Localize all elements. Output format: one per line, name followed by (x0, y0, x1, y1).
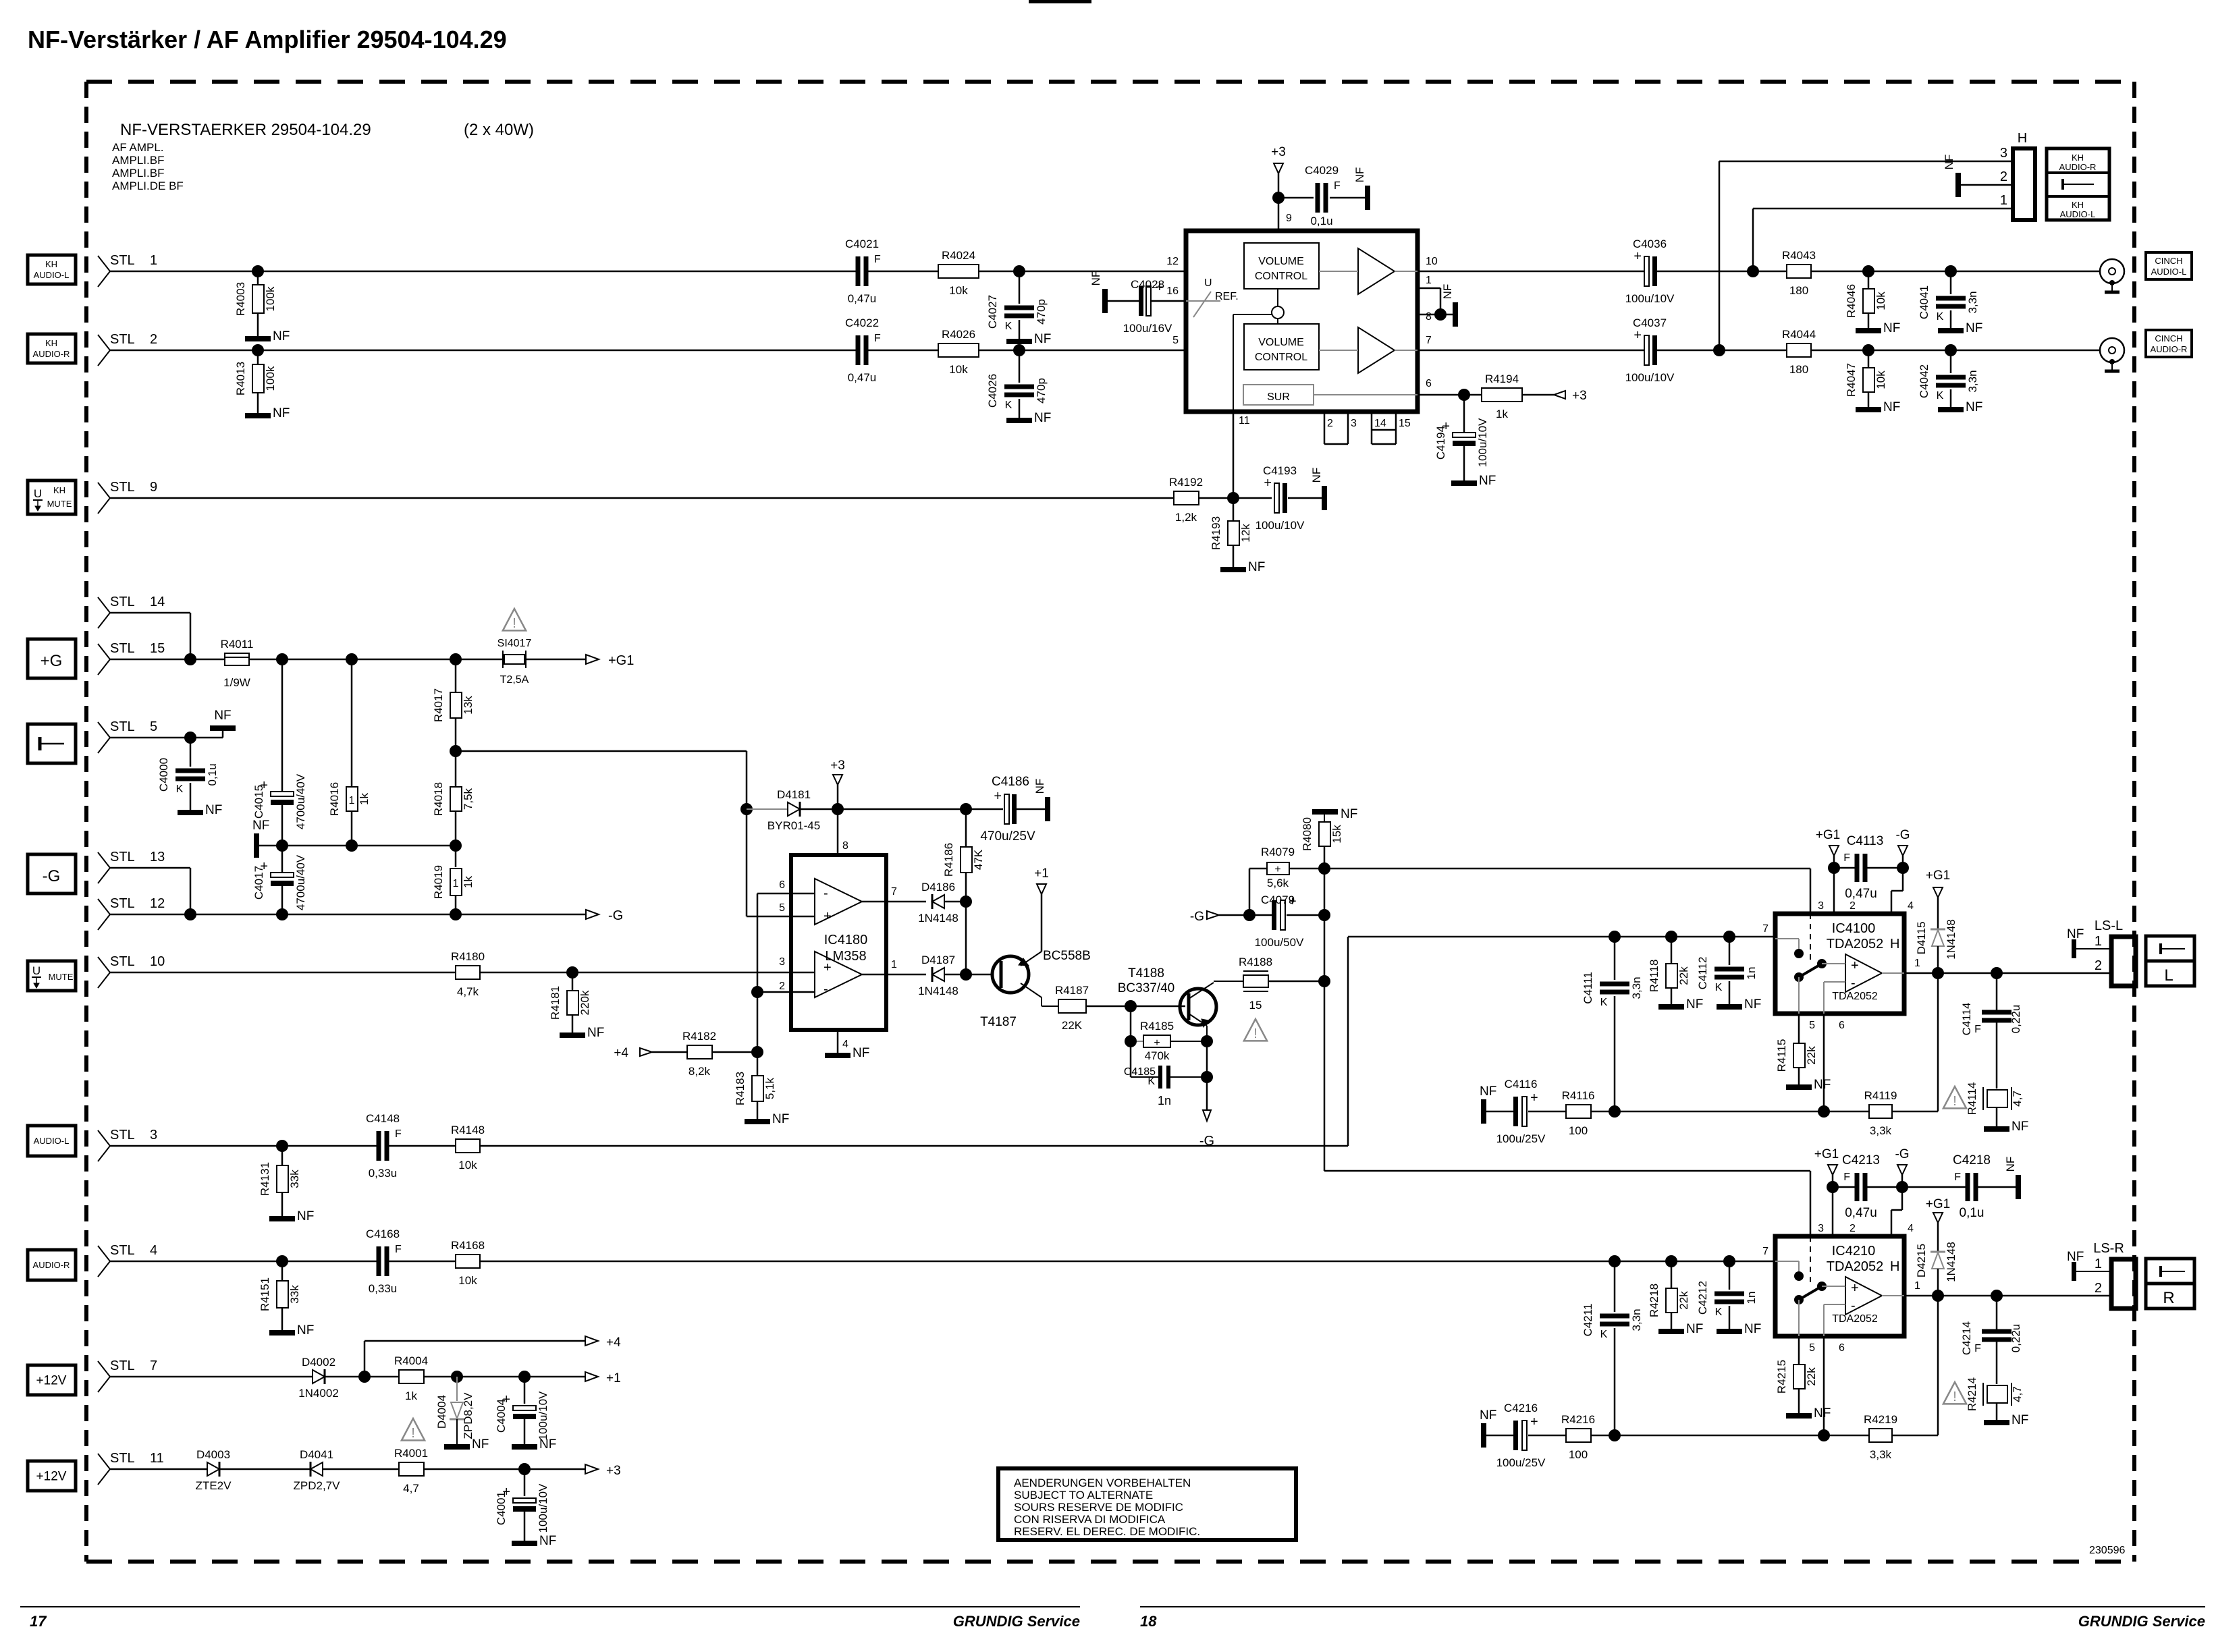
warning triangle R4214 (1943, 1382, 1966, 1404)
capacitor C4079 (1249, 893, 1324, 949)
svg-text:+: + (1633, 328, 1642, 343)
capacitor C4114 (1960, 973, 2022, 1089)
pin label IC4210-4 (1908, 1223, 1914, 1234)
svg-text:C4079: C4079 (1261, 893, 1295, 906)
ground NF C4112 (1717, 997, 1761, 1012)
pin label 6 (vc) (1426, 378, 1432, 389)
node output C4114 (1991, 967, 2003, 979)
wire C4028-pin16 (1151, 300, 1186, 302)
svg-text:C4029: C4029 (1305, 164, 1339, 177)
cinch jack AUDIO-L (2100, 259, 2124, 292)
pin label IC4100-7 (1762, 923, 1769, 935)
capacitor C4000 (157, 738, 219, 810)
svg-text:C4148: C4148 (366, 1112, 400, 1125)
pin label IC4100-3 (1818, 900, 1824, 912)
capacitor C4015 (252, 659, 307, 846)
svg-text:+G: +G (40, 652, 63, 670)
svg-text:F: F (874, 254, 881, 265)
wire STL11 row (110, 1468, 586, 1470)
node -G R4019 (450, 908, 462, 920)
resistor R4016 (328, 659, 371, 846)
node STL13-12 (184, 908, 196, 920)
svg-text:17: 17 (30, 1613, 47, 1630)
pin label 1 (vc) (1426, 275, 1432, 286)
node output C4214 (1991, 1290, 2003, 1302)
fuse SI4017 (497, 638, 532, 686)
svg-text:-: - (1851, 1298, 1856, 1313)
amp triangle 1 (1358, 248, 1395, 294)
top page marker bar (1029, 0, 1091, 3)
svg-text:1k: 1k (405, 1389, 417, 1402)
pin label 5 (1172, 335, 1179, 346)
svg-text:ZPD2,7V: ZPD2,7V (294, 1479, 341, 1492)
pin STL 2 (98, 332, 157, 366)
wire bias to IC4210 pin3 (1324, 1171, 1810, 1236)
svg-text:NF: NF (205, 803, 222, 817)
svg-text:D4003: D4003 (196, 1448, 230, 1461)
svg-text:R4192: R4192 (1169, 476, 1203, 489)
node STL4 R4151 (276, 1255, 288, 1267)
svg-text:R4080: R4080 (1301, 817, 1314, 851)
wire pin6 column (1823, 1014, 1825, 1111)
connector tag KH AUDIO-R/L (2047, 148, 2109, 220)
svg-text:100u/50V: 100u/50V (1255, 936, 1304, 949)
svg-text:R4181: R4181 (549, 986, 562, 1020)
ground NF R4131 (269, 1209, 314, 1223)
node rowA C4041 (1945, 265, 1957, 277)
pins 14-15 strap (1372, 412, 1411, 444)
svg-text:NF: NF (539, 1534, 556, 1548)
svg-text:GRUNDIG Service: GRUNDIG Service (2078, 1613, 2205, 1630)
svg-text:C4113: C4113 (1847, 834, 1884, 848)
wire pin5 column IC4210 (1798, 1336, 1800, 1365)
capacitor C4185 (1124, 1041, 1207, 1107)
wire ref to pin11 column (1233, 314, 1272, 412)
ground NF STL5 (210, 709, 236, 738)
T4187 emitter (1019, 952, 1042, 966)
ground NF R4181 (560, 1026, 604, 1040)
pin STL 9 (98, 480, 157, 514)
svg-text:7: 7 (1426, 335, 1432, 346)
ground NF R4214 (1984, 1413, 2028, 1427)
svg-text:GRUNDIG Service: GRUNDIG Service (953, 1613, 1080, 1630)
pin STL 7 (98, 1358, 157, 1392)
svg-text:MUTE: MUTE (47, 499, 72, 509)
svg-text:+: + (1851, 958, 1859, 973)
svg-text:5: 5 (1809, 1342, 1815, 1354)
svg-text:7: 7 (891, 886, 897, 898)
svg-text:1: 1 (2095, 1257, 2102, 1271)
svg-text:3,3k: 3,3k (1870, 1448, 1892, 1461)
node D4181 anode (740, 803, 753, 815)
wire R4187-T4188 (1086, 1006, 1185, 1008)
node C4212 top (1723, 1255, 1735, 1267)
pin label IC4100-5 (1809, 1020, 1815, 1031)
node C4185 right (1201, 1071, 1213, 1083)
svg-text:470p: 470p (1035, 299, 1048, 325)
diode D4002 (298, 1356, 339, 1400)
svg-text:22k: 22k (1805, 1046, 1818, 1065)
pin STL 3 (98, 1128, 157, 1161)
svg-text:C4000: C4000 (157, 758, 170, 792)
wire STL13 (110, 868, 190, 914)
svg-text:3,3n: 3,3n (1630, 1309, 1643, 1331)
svg-text:-: - (1851, 976, 1856, 991)
net +1 out (585, 1371, 621, 1385)
svg-text:3: 3 (1351, 418, 1357, 429)
svg-text:3,3n: 3,3n (1966, 370, 1979, 392)
svg-text:R4188: R4188 (1239, 956, 1272, 968)
connector tag KH AUDIO-L (28, 255, 76, 284)
pin label 10 (1426, 256, 1438, 267)
svg-text:3: 3 (779, 956, 785, 968)
svg-text:C4017: C4017 (252, 866, 265, 900)
svg-text:10: 10 (1426, 256, 1438, 267)
svg-text:AMPLI.BF: AMPLI.BF (112, 154, 164, 167)
svg-text:10k: 10k (1874, 292, 1887, 310)
IC volume control box (1186, 231, 1417, 412)
svg-text:2: 2 (2095, 1281, 2102, 1296)
svg-text:1: 1 (1914, 958, 1920, 969)
node IC4100 pin4 (1897, 862, 1909, 874)
resistor R4151 (259, 1261, 301, 1330)
node +G R4017 (450, 653, 462, 665)
svg-text:NF: NF (1479, 474, 1496, 488)
resistor R4185 (1131, 1006, 1207, 1062)
wire node-T4187 base (966, 974, 992, 976)
capacitor C4028 (1123, 278, 1172, 335)
svg-text:AUDIO-L: AUDIO-L (2151, 267, 2187, 277)
node IC4100 pin2 (1828, 862, 1840, 874)
pin label 16 (1166, 285, 1179, 297)
svg-text:STL: STL (110, 595, 135, 609)
svg-text:RESERV. EL DEREC. DE MODIFIC.: RESERV. EL DEREC. DE MODIFIC. (1014, 1525, 1200, 1538)
capacitor C4017 (252, 846, 307, 914)
wire R4219 feedback (1937, 1296, 1939, 1435)
svg-text:47K: 47K (972, 849, 985, 870)
IC4100 box (1775, 914, 1904, 1014)
svg-text:KH: KH (53, 485, 65, 495)
svg-text:-G: -G (1895, 1147, 1909, 1161)
wire D4187-node (944, 974, 966, 976)
svg-text:STL: STL (110, 1243, 135, 1258)
resistor R4047 (1845, 350, 1887, 407)
T4188 emitter (1189, 1014, 1208, 1041)
svg-text:R4183: R4183 (734, 1072, 747, 1105)
svg-text:K: K (1600, 1329, 1608, 1340)
svg-text:4: 4 (150, 1243, 157, 1258)
svg-text:13k: 13k (462, 696, 475, 715)
volume control block 1 (1244, 243, 1319, 289)
pin label 1 (op) (891, 959, 897, 970)
pin label H1 (2000, 193, 2007, 208)
svg-text:C4194: C4194 (1434, 426, 1447, 460)
pin STL 5 (98, 719, 157, 753)
svg-text:1: 1 (2000, 193, 2007, 208)
capacitor C4112 (1696, 937, 1758, 1004)
svg-text:R4180: R4180 (451, 950, 485, 963)
svg-text:R4026: R4026 (942, 328, 975, 341)
svg-text:C4036: C4036 (1633, 238, 1667, 250)
T4187 collector (1021, 983, 1058, 1006)
svg-text:3,3k: 3,3k (1870, 1124, 1892, 1137)
node rowB C4042 (1945, 344, 1957, 356)
node C4211 top (1609, 1255, 1621, 1267)
opamp A triangle (815, 879, 862, 925)
pin STL 4 (98, 1243, 157, 1277)
svg-text:KH: KH (45, 338, 57, 348)
ground NF C4026 (1006, 411, 1051, 425)
svg-text:1: 1 (349, 795, 355, 806)
pin label LSR-2 (2095, 1281, 2102, 1296)
node R4185 right (1201, 1035, 1213, 1047)
svg-text:CON RISERVA DI MODIFICA: CON RISERVA DI MODIFICA (1014, 1513, 1166, 1526)
node C4111 bottom (1609, 1105, 1621, 1118)
svg-text:CONTROL: CONTROL (1255, 271, 1307, 282)
svg-text:+G1: +G1 (1926, 869, 1950, 883)
svg-text:D4041: D4041 (300, 1448, 333, 1461)
svg-text:NF: NF (1883, 400, 1900, 414)
resistor R4043 (1782, 249, 1816, 297)
svg-text:4,7: 4,7 (2011, 1091, 2024, 1107)
svg-text:NF: NF (1943, 155, 1955, 170)
svg-text:R4001: R4001 (394, 1447, 428, 1460)
wire pin8 supply (837, 809, 839, 855)
svg-text:1N4002: 1N4002 (298, 1387, 339, 1400)
capacitor C4037 (1625, 316, 1675, 384)
pin label 8 (vc) (1426, 311, 1432, 323)
svg-text:D4115: D4115 (1915, 922, 1928, 955)
svg-text:NF: NF (1248, 560, 1265, 574)
svg-text:BC337/40: BC337/40 (1118, 981, 1175, 995)
wire STL14 (110, 613, 190, 659)
ground NF pin8 (1441, 284, 1458, 327)
svg-text:+G1: +G1 (1816, 828, 1840, 842)
svg-text:STL: STL (110, 896, 135, 911)
IC4100 mute switch (1775, 939, 1845, 1014)
power +3 (pin9) (1271, 145, 1286, 198)
svg-text:NF: NF (2012, 1413, 2028, 1427)
svg-text:C4015: C4015 (252, 785, 265, 819)
capacitor C4168 (366, 1228, 402, 1295)
svg-text:STL: STL (110, 332, 135, 347)
svg-text:NF: NF (1814, 1078, 1831, 1092)
wire STL10 row (110, 972, 815, 974)
ground NF C4116 (1480, 1084, 1496, 1124)
connector tag AUDIO-L (28, 1126, 76, 1156)
node STL1-R4003 (252, 265, 264, 277)
svg-text:9: 9 (1286, 213, 1292, 224)
pin label LSL-1 (2095, 934, 2102, 949)
svg-text:0,33u: 0,33u (369, 1282, 398, 1295)
node D4187 (960, 968, 972, 981)
svg-text:+: + (1274, 864, 1280, 875)
svg-text:TDA2052: TDA2052 (1827, 1259, 1884, 1274)
svg-text:AUDIO-R: AUDIO-R (2151, 344, 2188, 354)
svg-text:33k: 33k (288, 1169, 301, 1188)
svg-text:BC558B: BC558B (1043, 949, 1091, 963)
svg-text:100u/25V: 100u/25V (1496, 1132, 1546, 1145)
svg-text:5: 5 (1809, 1020, 1815, 1031)
svg-text:100u/10V: 100u/10V (1625, 371, 1675, 384)
IC4100 pin6 link (1824, 982, 1845, 1014)
svg-text:R4214: R4214 (1966, 1377, 1978, 1411)
pin label 2 (op) (779, 981, 785, 992)
svg-text:1,2k: 1,2k (1175, 511, 1197, 524)
svg-text:22k: 22k (1677, 1291, 1690, 1310)
svg-text:NF: NF (1480, 1408, 1496, 1423)
wire pin5 column (1798, 1014, 1800, 1043)
footer rule right (1140, 1606, 2205, 1607)
wire D4181 row (747, 808, 1003, 810)
wire STL15 +G row (110, 659, 586, 661)
svg-text:STL: STL (110, 641, 135, 656)
pin label 9 (1286, 213, 1292, 224)
svg-text:AUDIO-L: AUDIO-L (34, 270, 70, 280)
svg-text:NF: NF (539, 1437, 556, 1452)
svg-text:R4187: R4187 (1055, 984, 1089, 997)
node rowA to H1 (1747, 265, 1759, 277)
net -G in (R4079) (1190, 910, 1249, 924)
svg-text:1: 1 (453, 878, 459, 889)
svg-text:R4185: R4185 (1140, 1020, 1174, 1032)
wire node-C4193 (1233, 497, 1272, 499)
svg-text:NF: NF (1441, 284, 1454, 300)
svg-text:R4119: R4119 (1864, 1089, 1897, 1102)
svg-text:KH: KH (2072, 200, 2084, 210)
svg-text:R4018: R4018 (432, 782, 445, 816)
node bias R4188 (1318, 975, 1330, 987)
svg-text:R4194: R4194 (1485, 373, 1519, 385)
capacitor C4211 (1582, 1261, 1643, 1435)
resistor R4148 (451, 1124, 485, 1172)
connector LS-L (2095, 918, 2136, 986)
svg-text:+3: +3 (1572, 389, 1587, 403)
svg-text:KH: KH (45, 259, 57, 269)
node STL3 R4131 (276, 1140, 288, 1152)
node rail C4015 (276, 839, 288, 852)
svg-text:AUDIO-L: AUDIO-L (34, 1136, 70, 1146)
header NF-VERSTAERKER (120, 121, 534, 139)
svg-text:!: ! (1953, 1389, 1957, 1404)
wire NF rail (259, 845, 456, 847)
pin label 6 (op) (779, 879, 785, 891)
ground NF LS-R1 (2067, 1250, 2111, 1281)
svg-text:1: 1 (1426, 275, 1432, 286)
svg-text:C4168: C4168 (366, 1228, 400, 1240)
ground NF pin4 (825, 1030, 869, 1060)
svg-text:5: 5 (1172, 335, 1179, 346)
svg-text:R4216: R4216 (1561, 1413, 1595, 1426)
svg-text:4: 4 (1908, 1223, 1914, 1234)
svg-text:9: 9 (150, 480, 157, 495)
svg-text:1: 1 (891, 959, 897, 970)
svg-text:STL: STL (110, 719, 135, 734)
svg-text:1N4148: 1N4148 (918, 985, 959, 997)
ground NF C4041 (1938, 321, 1982, 335)
svg-text:100: 100 (1569, 1124, 1588, 1137)
page title (28, 26, 507, 53)
svg-text:R4186: R4186 (942, 843, 955, 877)
svg-text:ZTE2V: ZTE2V (196, 1479, 232, 1492)
svg-text:R4118: R4118 (1648, 960, 1660, 993)
svg-text:220k: 220k (578, 990, 591, 1015)
node pin6 R4219 (1818, 1429, 1830, 1441)
connector tag KH AUDIO-R (28, 334, 76, 363)
svg-text:D4181: D4181 (777, 788, 811, 801)
SUR wire (1314, 394, 1417, 395)
svg-text:1: 1 (1914, 1280, 1920, 1292)
svg-text:C4186: C4186 (992, 775, 1029, 789)
svg-text:F: F (1843, 852, 1850, 864)
pin STL 15 (98, 641, 165, 675)
ground NF C4028 (1089, 271, 1108, 313)
capacitor C4036 (1625, 238, 1675, 305)
connector tag R (2146, 1259, 2194, 1309)
ground NF C4193 (1310, 468, 1327, 510)
node D4186 (960, 896, 972, 908)
wire pin11 (1233, 412, 1235, 498)
svg-text:K: K (1600, 997, 1608, 1008)
ground NF R4118 (1658, 997, 1703, 1012)
capacitor C4042 (1918, 350, 1979, 407)
connector tag -G (28, 854, 76, 893)
net +G1 out (586, 653, 634, 668)
resistor R4194 (1464, 373, 1554, 420)
pins 2-3 strap (1324, 412, 1357, 444)
capacitor C4218 (1902, 1153, 2016, 1220)
svg-text:+G1: +G1 (1814, 1147, 1839, 1161)
svg-text:+4: +4 (606, 1336, 621, 1350)
svg-text:22k: 22k (1677, 966, 1690, 985)
svg-text:470p: 470p (1035, 378, 1048, 404)
svg-text:C4037: C4037 (1633, 316, 1667, 329)
svg-text:8: 8 (842, 840, 848, 852)
svg-text:11: 11 (1239, 415, 1250, 426)
ground NF R4013 (245, 406, 290, 420)
ground NF C4216 (1480, 1408, 1496, 1448)
svg-text:0,22u: 0,22u (2009, 1005, 2022, 1034)
svg-text:6: 6 (1426, 378, 1432, 389)
svg-text:NF: NF (587, 1026, 604, 1040)
svg-text:R4215: R4215 (1775, 1360, 1788, 1394)
svg-text:100u/10V: 100u/10V (537, 1391, 549, 1440)
ground NF R4215 (1786, 1406, 1831, 1421)
svg-text:5: 5 (150, 719, 157, 734)
svg-text:R4115: R4115 (1775, 1039, 1788, 1072)
resistor R4004 (394, 1354, 428, 1402)
svg-text:C4114: C4114 (1960, 1003, 1973, 1036)
wire pin6 SUR (1417, 394, 1464, 396)
svg-text:F: F (1974, 1343, 1981, 1354)
svg-text:C4216: C4216 (1504, 1402, 1538, 1414)
svg-text:100u/10V: 100u/10V (1255, 519, 1305, 532)
warning triangle SI4017 (503, 609, 526, 631)
pin label LSL-2 (2095, 958, 2102, 973)
svg-text:R4043: R4043 (1782, 249, 1816, 262)
node -G C4017 (276, 908, 288, 920)
svg-text:H: H (1890, 1259, 1899, 1274)
svg-text:F: F (395, 1128, 402, 1140)
capacitor C4001 (495, 1469, 549, 1541)
svg-text:AUDIO-R: AUDIO-R (33, 349, 70, 359)
svg-text:2: 2 (2000, 169, 2007, 184)
svg-text:AUDIO-L: AUDIO-L (2060, 209, 2096, 219)
svg-text:(2 x 40W): (2 x 40W) (464, 121, 534, 139)
svg-text:SUR: SUR (1267, 391, 1290, 403)
ground NF R4080 (1312, 807, 1357, 822)
IC4210 pin6 link (1824, 1304, 1845, 1336)
